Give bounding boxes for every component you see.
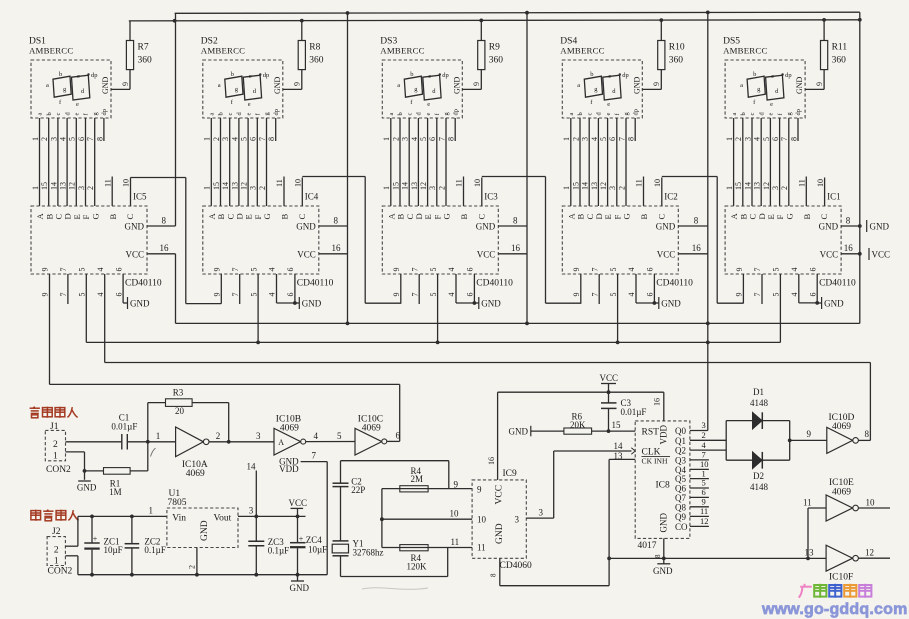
svg-text:4: 4 [627,293,636,297]
svg-text:IC1: IC1 [827,192,841,202]
svg-text:7: 7 [410,268,419,272]
svg-text:VCC: VCC [289,498,308,508]
svg-text:13: 13 [805,548,815,558]
svg-text:4148: 4148 [750,482,769,492]
svg-text:b: b [59,71,62,78]
svg-text:9: 9 [702,497,706,507]
svg-text:4: 4 [230,137,239,141]
diode network [725,421,727,461]
svg-text:2: 2 [53,440,58,450]
svg-text:VDD: VDD [279,464,299,474]
svg-text:7: 7 [437,137,446,141]
svg-text:GND: GND [481,299,501,309]
svg-text:b: b [410,71,413,78]
svg-text:GND: GND [77,483,97,493]
svg-text:14: 14 [247,461,257,471]
svg-text:22P: 22P [351,485,365,495]
wire DS5 pin9 GND to R11 [805,88,824,90]
wire IC2 pin4 join pin6 [635,274,637,303]
svg-text:IC3: IC3 [484,192,498,202]
wire IC2 vertical continues to IC8 Q0 [707,323,709,430]
label power-input (Chinese) [31,510,41,521]
svg-text:Vin: Vin [172,513,186,523]
svg-text:5: 5 [609,268,618,272]
wire IC9 pin3 to IC8 clock [526,517,553,519]
svg-text:10: 10 [473,179,482,187]
svg-text:9: 9 [392,268,401,272]
wire IC1 pin9 in [742,274,744,303]
stray pen mark [151,448,156,456]
svg-text:6: 6 [428,137,437,141]
svg-text:b: b [397,112,404,115]
svg-text:6: 6 [286,293,295,297]
svg-text:7805: 7805 [168,498,187,508]
wire IC2 pin7 stub [598,274,600,304]
svg-text:4: 4 [96,293,105,297]
svg-text:7: 7 [590,293,599,297]
wire IC5 pin6 to ground [122,274,124,303]
svg-text:B: B [280,214,290,220]
svg-text:3: 3 [221,137,230,141]
svg-text:CD40110: CD40110 [656,279,693,289]
wire IC3 pin4 join pin6 [455,274,457,303]
svg-text:8: 8 [694,216,699,226]
svg-text:1: 1 [54,557,59,567]
wire IC4 pin7 stub [239,274,241,304]
svg-text:6: 6 [646,293,655,297]
wire IC2 gnd/vcc vertical [707,13,709,324]
svg-text:VCC: VCC [495,485,505,505]
svg-text:5: 5 [78,268,87,272]
svg-text:3: 3 [49,137,58,141]
wire IC2 pin9 in [580,274,582,304]
svg-text:IC10F: IC10F [829,572,853,582]
svg-text:a: a [388,113,395,116]
svg-text:5: 5 [762,137,771,141]
svg-text:4: 4 [447,268,456,272]
svg-text:c: c [55,113,62,116]
wire IC2 pin5 latch [617,274,619,342]
svg-text:3: 3 [608,186,617,190]
ground symbol IC2 pin6 [658,297,660,309]
svg-text:10: 10 [477,515,487,525]
wire latch bus B [86,341,780,343]
svg-text:2: 2 [212,137,221,141]
wire IC3 pin5 latch [437,274,439,342]
svg-text:C: C [819,214,829,220]
capacitor ZC2 0.1uF [131,516,133,543]
svg-text:CK INH: CK INH [642,457,668,466]
svg-text:7: 7 [59,293,68,297]
svg-text:8: 8 [513,216,518,226]
svg-text:CD40110: CD40110 [125,279,162,289]
svg-text:9: 9 [477,484,482,494]
wire IC5 pin7 stub [67,274,69,304]
svg-text:9: 9 [213,268,222,272]
svg-text:3: 3 [428,186,437,190]
svg-text:14: 14 [49,182,58,190]
svg-text:c: c [749,113,756,116]
svg-text:15: 15 [571,182,580,190]
svg-text:16: 16 [692,243,702,253]
wire IC4 pin16 VCC [319,253,348,255]
svg-text:8: 8 [865,429,870,439]
svg-text:9: 9 [293,82,302,86]
svg-text:20K: 20K [570,420,586,430]
svg-text:B: B [108,214,118,220]
svg-text:7: 7 [617,137,626,141]
svg-text:3: 3 [581,137,590,141]
svg-text:AMBERCC: AMBERCC [380,46,424,56]
svg-text:16: 16 [653,398,662,406]
svg-text:5: 5 [429,268,438,272]
svg-text:e: e [248,101,251,108]
svg-text:1: 1 [31,137,40,141]
svg-text:5: 5 [419,137,428,141]
svg-text:2: 2 [391,137,400,141]
svg-text:13: 13 [590,182,599,190]
svg-text:GND: GND [824,299,844,309]
svg-text:b: b [218,112,225,115]
svg-text:AMBERCC: AMBERCC [29,46,73,56]
resistor R10 360 [660,70,662,90]
svg-text:a: a [731,113,738,116]
svg-text:a: a [577,82,580,89]
svg-text:e: e [74,113,81,116]
svg-text:0.01µF: 0.01µF [111,421,137,431]
wire IC1 gnd/vcc vertical [859,12,861,323]
wire DS2 pin9 GND to R8 [283,88,302,90]
svg-text:4: 4 [590,137,599,141]
svg-text:a: a [37,113,44,116]
display DS2 AMBERCC [201,21,348,343]
resistor R3 20 feedback [147,403,149,442]
svg-text:13: 13 [410,182,419,190]
wire IC2 pin6 to ground [653,274,655,303]
svg-text:9: 9 [392,293,401,297]
svg-text:6: 6 [808,293,817,297]
svg-text:5: 5 [249,293,258,297]
wire IC1 pin8 GND [841,225,860,227]
svg-text:C: C [125,214,135,220]
svg-text:CON2: CON2 [46,465,71,475]
svg-text:1M: 1M [109,487,122,497]
crystal Y1 32768hz [333,540,349,542]
svg-text:IC4: IC4 [305,192,319,202]
wire IC4 gnd/vcc vertical [347,13,349,324]
svg-text:8: 8 [162,216,167,226]
svg-text:7: 7 [258,137,267,141]
display DS3 AMBERCC [380,20,527,342]
svg-text:GND: GND [101,76,110,94]
svg-text:10: 10 [450,509,460,519]
svg-text:Q8: Q8 [675,502,686,512]
svg-text:0.1µF: 0.1µF [144,545,165,555]
wire J1 pin1 [66,451,85,453]
svg-text:7: 7 [231,268,240,272]
svg-text:GND: GND [125,222,145,232]
svg-text:8: 8 [95,137,104,141]
svg-text:9: 9 [572,268,581,272]
svg-text:1: 1 [382,137,391,141]
svg-text:1: 1 [725,186,734,190]
svg-text:GND: GND [653,566,673,576]
resistor R8 360 [301,70,303,90]
resistor R4 2M [382,488,472,490]
svg-text:6: 6 [608,137,617,141]
counter IC5 CD40110 [31,206,147,274]
svg-text:e: e [607,101,610,108]
ground symbol IC5 pin6 [127,297,129,309]
svg-text:8: 8 [490,573,498,577]
svg-text:14: 14 [221,182,230,190]
svg-text:IC2: IC2 [664,192,678,202]
svg-text:GND: GND [452,76,461,94]
svg-text:Q9: Q9 [675,512,686,522]
wire IC3 carry cascade [482,176,546,178]
ground symbol IC1 pin8 [866,220,868,232]
svg-text:Vout: Vout [214,513,232,523]
wire IC2 carry cascade [662,176,717,178]
wire IC4 pin5 latch [257,274,259,342]
svg-text:360: 360 [138,56,153,66]
svg-text:c: c [227,113,234,116]
svg-text:6: 6 [646,268,655,272]
svg-text:3: 3 [743,137,752,141]
svg-text:9: 9 [41,268,50,272]
wire J2 pin2 to Vin rail [65,545,78,547]
svg-text:9: 9 [213,293,222,297]
svg-text:G: G [442,213,452,219]
svg-text:11: 11 [700,506,708,516]
svg-text:2: 2 [54,546,59,556]
wire IC8 VDD pin16 [663,392,665,421]
svg-text:1: 1 [562,137,571,141]
diode D2 4148 [726,459,790,461]
svg-text:G: G [262,213,272,219]
svg-text:IC5: IC5 [133,192,147,202]
svg-text:R8: R8 [309,43,320,53]
capacitor C1 0.01uF [121,434,123,450]
svg-text:10: 10 [294,179,303,187]
svg-text:4: 4 [59,137,68,141]
svg-text:GND: GND [296,222,316,232]
svg-text:7: 7 [59,268,68,272]
svg-text:10µF: 10µF [308,545,327,555]
svg-text:b: b [753,71,756,78]
svg-text:3: 3 [702,420,706,430]
svg-text:13: 13 [230,182,239,190]
svg-text:5: 5 [772,268,781,272]
wire IC3 pin8 GND [498,225,527,227]
svg-text:CON2: CON2 [48,567,73,577]
svg-text:3: 3 [771,186,780,190]
svg-text:12: 12 [700,516,709,526]
svg-text:7: 7 [702,450,706,460]
svg-text:b: b [231,71,234,78]
svg-text:11: 11 [798,179,807,187]
svg-text:4069: 4069 [280,424,299,434]
svg-text:2M: 2M [411,474,424,484]
svg-text:c: c [428,73,431,80]
svg-text:G: G [90,213,100,219]
svg-text:4069: 4069 [362,424,381,434]
svg-text:7: 7 [86,137,95,141]
svg-text:b: b [577,112,584,115]
svg-text:VCC: VCC [657,249,676,259]
svg-text:GND: GND [656,222,676,232]
wire U1 Vout +5V rail [238,515,306,517]
svg-text:12: 12 [599,182,608,190]
svg-text:7: 7 [753,293,762,297]
svg-text:dp: dp [273,109,280,116]
svg-text:12: 12 [419,182,428,190]
wire IC5 pin8 GND [147,225,176,227]
wire C1 to IC10A input [127,441,175,443]
svg-text:GND: GND [495,523,505,544]
counter IC4 CD40110 [203,206,319,274]
wire DS4 pin9 GND to R10 [642,88,661,90]
svg-text:dp: dp [101,109,108,116]
svg-text:c: c [586,113,593,116]
svg-text:VCC: VCC [600,373,619,383]
capacitor C2 22P [340,461,342,483]
svg-text:J2: J2 [52,527,61,537]
svg-text:0.01µF: 0.01µF [621,407,647,417]
svg-text:8: 8 [627,137,636,141]
svg-text:b: b [740,112,747,115]
svg-text:6: 6 [396,431,401,441]
resistor R7 360 [129,70,131,90]
wire bus C to IC10D [105,362,871,364]
power symbol IC1 pin16 VCC [868,248,870,260]
svg-text:GND: GND [819,222,839,232]
svg-text:GND: GND [661,299,681,309]
display DS1 AMBERCC [29,21,176,343]
svg-text:9: 9 [807,429,812,439]
svg-text:7: 7 [780,137,789,141]
stray smudge [362,588,428,590]
svg-text:a: a [46,82,49,89]
wire diode output to IC10D [789,421,791,461]
svg-text:A: A [278,438,284,447]
wire IC3 gnd/vcc vertical [526,13,528,324]
wire IC5 pin9 clock down to bus [49,274,51,384]
svg-text:CD40110: CD40110 [297,279,334,289]
svg-text:G: G [622,213,632,219]
wire DS1 pin9 GND to R7 [111,88,130,90]
wire IC1 pin16 VCC [841,253,860,255]
svg-text:GND: GND [632,76,641,94]
wire top GND bus [175,12,860,13]
svg-text:2: 2 [437,186,446,190]
svg-text:VDD: VDD [659,425,669,445]
svg-text:10: 10 [122,179,131,187]
wire J2 pin1 to ground rail [65,555,78,557]
wire IC8 clock row [554,450,632,452]
svg-text:D1: D1 [753,387,764,397]
svg-text:16: 16 [487,457,496,465]
svg-text:4: 4 [96,268,105,272]
wire IC2 pin8 GND [678,225,708,227]
wire IC5 pin4 down to bus [104,274,106,363]
counter IC3 CD40110 [382,206,498,274]
wire IC5 pin16 vcc vertical [175,254,177,324]
wire clock bus D [50,383,400,385]
svg-text:GND: GND [273,76,282,94]
svg-text:3: 3 [77,186,86,190]
svg-text:12: 12 [762,182,771,190]
svg-text:9: 9 [472,82,481,86]
resistor R4 120K [382,547,472,549]
svg-text:IC8: IC8 [656,480,671,490]
svg-text:c: c [77,73,80,80]
svg-text:16: 16 [844,243,854,253]
svg-text:6: 6 [808,268,817,272]
svg-text:e: e [427,101,430,108]
svg-text:5: 5 [249,268,258,272]
svg-text:Q3: Q3 [675,455,686,465]
capacitor ZC3 0.1uF on pin14 branch [248,540,264,542]
svg-text:R7: R7 [138,43,149,53]
svg-text:a: a [740,82,743,89]
svg-text:b: b [46,112,53,115]
svg-text:120K: 120K [407,562,428,572]
svg-text:GND: GND [795,76,804,94]
svg-text:www.go-gddq.com: www.go-gddq.com [761,601,908,618]
svg-text:16: 16 [511,243,521,253]
svg-text:B: B [639,214,649,220]
svg-text:dp: dp [91,72,98,79]
diode D1 4148 [726,420,790,422]
wire top resistor bus [129,20,860,21]
svg-text:11: 11 [103,179,112,187]
svg-text:Q1: Q1 [675,436,686,446]
svg-text:5: 5 [429,293,438,297]
counter IC1 CD40110 [725,206,841,274]
svg-text:VCC: VCC [125,249,144,259]
svg-text:e: e [768,113,775,116]
svg-text:a: a [218,82,221,89]
resistor R9 360 [480,70,482,90]
svg-text:2: 2 [40,137,49,141]
wire IC2 pin16 VCC [678,253,708,255]
svg-text:9: 9 [41,293,50,297]
inverter IC10C 4069 [355,428,382,455]
svg-text:4: 4 [790,293,799,297]
svg-text:AMBERCC: AMBERCC [560,46,604,56]
svg-text:e: e [770,101,773,108]
svg-text:16: 16 [160,243,170,253]
svg-text:5: 5 [337,431,342,441]
svg-text:360: 360 [669,56,684,66]
svg-text:8: 8 [789,137,798,141]
svg-text:GND: GND [290,583,310,593]
svg-text:VCC: VCC [477,249,496,259]
wire IC10B out to IC10C in [306,441,355,443]
svg-text:c: c [771,73,774,80]
svg-text:1: 1 [562,186,571,190]
wire J1 pin2 to C1 [66,441,122,443]
svg-text:1: 1 [725,137,734,141]
ground symbol IC4 pin6 [298,297,300,309]
svg-text:9: 9 [454,479,459,489]
svg-text:CD40110: CD40110 [819,279,856,289]
resistor R11 360 [823,70,825,90]
capacitor C3 0.01uF [601,402,617,404]
svg-text:1: 1 [203,186,212,190]
wire IC1 pin4 join pin6 [798,274,800,303]
